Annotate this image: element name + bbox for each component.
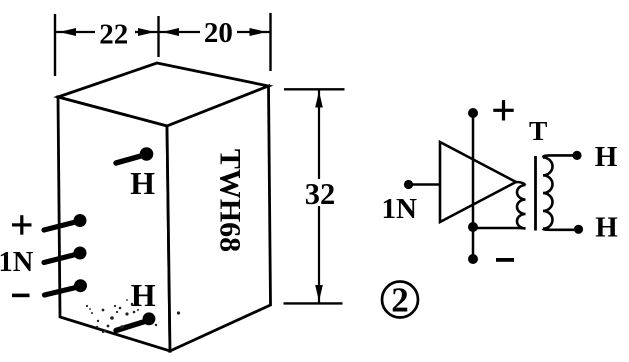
svg-text:H: H [595,211,618,243]
svg-text:1N: 1N [382,193,418,225]
svg-text:T: T [529,115,547,146]
svg-text:1N: 1N [0,247,34,278]
svg-text:20: 20 [204,17,233,49]
svg-text:H: H [595,141,618,173]
svg-text:TWH68: TWH68 [214,149,247,252]
svg-text:H: H [131,277,156,313]
svg-text:32: 32 [305,177,336,211]
svg-text:H: H [130,165,155,201]
svg-text:22: 22 [99,18,128,50]
svg-text:2: 2 [391,281,409,320]
